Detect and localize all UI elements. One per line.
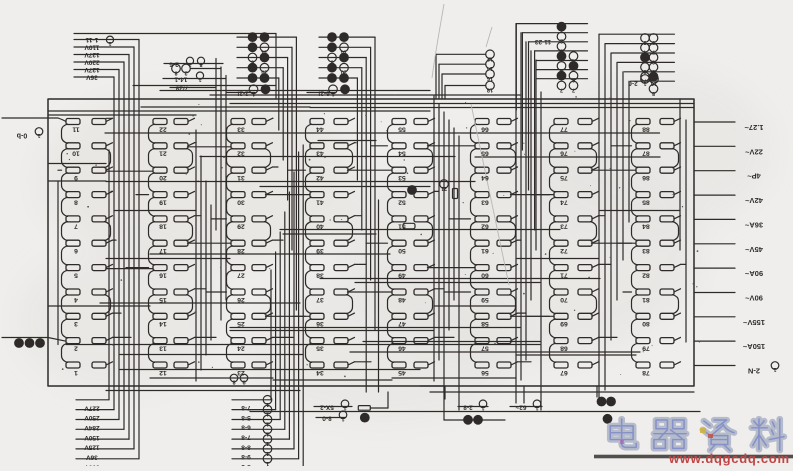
svg-text:9: 9 bbox=[242, 379, 245, 385]
svg-text:61: 61 bbox=[481, 247, 489, 254]
svg-text:6-8: 6-8 bbox=[241, 424, 251, 431]
svg-text:1: 1 bbox=[535, 404, 538, 410]
svg-text:84: 84 bbox=[642, 223, 650, 230]
svg-text:46: 46 bbox=[398, 344, 406, 351]
svg-text:87: 87 bbox=[642, 150, 650, 157]
svg-text:0-b: 0-b bbox=[17, 132, 28, 139]
svg-text:150V: 150V bbox=[84, 434, 100, 441]
svg-text:66: 66 bbox=[481, 125, 489, 132]
svg-text:74: 74 bbox=[560, 198, 568, 205]
svg-text:1: 1 bbox=[74, 369, 78, 376]
svg-text:6: 6 bbox=[643, 68, 646, 74]
svg-text:5X-2: 5X-2 bbox=[320, 404, 334, 411]
svg-text:3: 3 bbox=[560, 47, 563, 53]
svg-text:284V: 284V bbox=[84, 424, 100, 431]
svg-text:8: 8 bbox=[232, 379, 235, 385]
svg-text:1: 1 bbox=[266, 401, 269, 407]
svg-text:2: 2 bbox=[74, 344, 78, 351]
svg-text:54: 54 bbox=[398, 150, 406, 157]
svg-text:44: 44 bbox=[316, 125, 324, 132]
svg-text:17: 17 bbox=[159, 247, 167, 254]
svg-text:55: 55 bbox=[398, 125, 406, 132]
svg-text:1: 1 bbox=[108, 40, 111, 46]
svg-text:125V: 125V bbox=[84, 444, 100, 451]
svg-text:14-1: 14-1 bbox=[174, 76, 187, 83]
svg-text:5: 5 bbox=[560, 67, 563, 73]
svg-text:1: 1 bbox=[198, 76, 201, 82]
svg-text:38: 38 bbox=[316, 271, 324, 278]
svg-text:8: 8 bbox=[652, 90, 655, 96]
svg-text:22V~: 22V~ bbox=[745, 147, 763, 156]
svg-text:220V: 220V bbox=[84, 59, 100, 66]
svg-text:34: 34 bbox=[316, 369, 324, 376]
svg-text:36V: 36V bbox=[86, 74, 98, 81]
svg-text:29: 29 bbox=[237, 223, 245, 230]
svg-text:48: 48 bbox=[398, 296, 406, 303]
svg-text:73: 73 bbox=[560, 223, 568, 230]
svg-text:42: 42 bbox=[316, 174, 324, 181]
svg-text:7: 7 bbox=[652, 49, 655, 55]
svg-text:11: 11 bbox=[72, 125, 79, 132]
svg-text:6: 6 bbox=[572, 77, 575, 83]
svg-text:1: 1 bbox=[343, 404, 346, 410]
svg-text:51: 51 bbox=[398, 223, 406, 230]
svg-text:7: 7 bbox=[560, 87, 563, 93]
svg-text:14: 14 bbox=[159, 320, 167, 327]
svg-text:10: 10 bbox=[651, 80, 657, 86]
svg-text:6-2!: 6-2! bbox=[318, 90, 330, 97]
svg-text:6: 6 bbox=[74, 247, 78, 254]
svg-text:20: 20 bbox=[261, 69, 267, 75]
svg-text:www.dqgcdq.com: www.dqgcdq.com bbox=[668, 451, 789, 466]
svg-text:27: 27 bbox=[237, 271, 245, 278]
svg-text:150A~: 150A~ bbox=[742, 342, 765, 351]
svg-text:3: 3 bbox=[643, 39, 646, 45]
svg-text:23: 23 bbox=[237, 369, 245, 376]
svg-text:31: 31 bbox=[237, 174, 245, 181]
svg-text:47: 47 bbox=[398, 320, 406, 327]
svg-text:36A~: 36A~ bbox=[744, 220, 763, 229]
svg-text:43: 43 bbox=[316, 150, 324, 157]
svg-text:155V~: 155V~ bbox=[742, 318, 765, 327]
svg-text:11-23: 11-23 bbox=[534, 38, 551, 45]
svg-text:12: 12 bbox=[159, 369, 167, 376]
svg-text:10: 10 bbox=[72, 150, 80, 157]
svg-text:1: 1 bbox=[252, 90, 255, 96]
svg-text:7-8: 7-8 bbox=[241, 434, 251, 441]
svg-text:2-6: 2-6 bbox=[169, 61, 179, 68]
svg-text:227V: 227V bbox=[84, 404, 100, 411]
svg-text:45: 45 bbox=[398, 369, 406, 376]
svg-text:1: 1 bbox=[341, 415, 344, 421]
svg-text:2-8: 2-8 bbox=[463, 404, 473, 411]
svg-text:1: 1 bbox=[773, 366, 776, 372]
svg-text:13: 13 bbox=[159, 344, 167, 351]
svg-text:65: 65 bbox=[481, 150, 489, 157]
svg-text:14: 14 bbox=[340, 48, 347, 54]
svg-text:21: 21 bbox=[159, 150, 167, 157]
svg-text:8: 8 bbox=[174, 70, 177, 76]
svg-text:16: 16 bbox=[487, 75, 493, 81]
svg-text:36V: 36V bbox=[86, 453, 98, 460]
svg-text:22: 22 bbox=[159, 125, 167, 132]
svg-text:39: 39 bbox=[316, 247, 324, 254]
svg-text:5: 5 bbox=[652, 68, 655, 74]
svg-text:12: 12 bbox=[487, 55, 493, 61]
svg-text:20: 20 bbox=[159, 174, 167, 181]
svg-text:24: 24 bbox=[237, 344, 245, 351]
svg-text:9-8: 9-8 bbox=[241, 453, 251, 460]
svg-text:26: 26 bbox=[237, 296, 245, 303]
svg-text:42V~: 42V~ bbox=[745, 196, 763, 205]
svg-text:71: 71 bbox=[560, 271, 568, 278]
svg-text:81: 81 bbox=[642, 296, 650, 303]
svg-text:14: 14 bbox=[261, 48, 268, 54]
svg-text:1: 1 bbox=[266, 460, 269, 466]
svg-text:110V: 110V bbox=[84, 44, 99, 51]
svg-text:1: 1 bbox=[266, 440, 269, 446]
svg-text:88: 88 bbox=[642, 125, 650, 132]
svg-text:1: 1 bbox=[266, 421, 269, 427]
svg-text:2-6: 2-6 bbox=[628, 80, 638, 87]
svg-text:36: 36 bbox=[316, 320, 324, 327]
svg-text:28: 28 bbox=[237, 247, 245, 254]
svg-text:90V~: 90V~ bbox=[745, 294, 763, 303]
svg-text:69: 69 bbox=[560, 320, 568, 327]
svg-text:18: 18 bbox=[487, 87, 493, 93]
svg-text:37: 37 bbox=[316, 296, 324, 303]
svg-text:77: 77 bbox=[560, 125, 568, 132]
svg-text:1: 1 bbox=[481, 404, 484, 410]
svg-text:1-11: 1-11 bbox=[85, 36, 98, 43]
svg-text:76: 76 bbox=[560, 150, 568, 157]
svg-text:1: 1 bbox=[266, 450, 269, 456]
svg-text:83: 83 bbox=[642, 247, 650, 254]
svg-text:62: 62 bbox=[481, 223, 489, 230]
svg-text:80: 80 bbox=[642, 320, 650, 327]
svg-text:90A~: 90A~ bbox=[744, 269, 763, 278]
svg-text:40: 40 bbox=[316, 223, 324, 230]
svg-text:4: 4 bbox=[74, 296, 78, 303]
svg-text:1: 1 bbox=[266, 430, 269, 436]
svg-text:8: 8 bbox=[652, 39, 655, 45]
svg-text:79: 79 bbox=[642, 344, 650, 351]
svg-text:1: 1 bbox=[188, 61, 191, 67]
svg-text:70: 70 bbox=[560, 296, 568, 303]
svg-text:5: 5 bbox=[74, 271, 78, 278]
svg-text:8: 8 bbox=[74, 198, 78, 205]
svg-text:21: 21 bbox=[441, 185, 447, 191]
svg-text:7: 7 bbox=[572, 87, 575, 93]
svg-text:1: 1 bbox=[643, 80, 646, 86]
svg-text:52: 52 bbox=[398, 198, 406, 205]
svg-text:57: 57 bbox=[481, 344, 489, 351]
svg-text:9: 9 bbox=[74, 174, 78, 181]
svg-text:2-2!: 2-2! bbox=[237, 90, 249, 97]
svg-text:68: 68 bbox=[560, 344, 568, 351]
svg-text:62~: 62~ bbox=[515, 404, 526, 411]
svg-text:32: 32 bbox=[237, 150, 245, 157]
svg-text:1: 1 bbox=[331, 90, 334, 96]
svg-text:8-8: 8-8 bbox=[241, 443, 251, 450]
svg-text:2: 2 bbox=[184, 70, 187, 76]
svg-text:58: 58 bbox=[481, 320, 489, 327]
svg-text:8: 8 bbox=[199, 61, 202, 67]
svg-text:2-N: 2-N bbox=[748, 367, 760, 376]
svg-text:8-0: 8-0 bbox=[322, 415, 332, 422]
svg-text:63: 63 bbox=[481, 198, 489, 205]
svg-text:20: 20 bbox=[341, 69, 347, 75]
svg-text:6: 6 bbox=[652, 58, 655, 64]
svg-text:56: 56 bbox=[481, 369, 489, 376]
svg-text:7/28: 7/28 bbox=[175, 85, 188, 92]
svg-text:6: 6 bbox=[330, 59, 333, 65]
svg-text:6: 6 bbox=[251, 59, 254, 65]
svg-text:49: 49 bbox=[398, 271, 406, 278]
svg-text:86: 86 bbox=[642, 174, 650, 181]
svg-text:82: 82 bbox=[642, 271, 650, 278]
svg-text:3: 3 bbox=[74, 320, 78, 327]
svg-text:19: 19 bbox=[159, 198, 167, 205]
svg-text:50: 50 bbox=[398, 247, 406, 254]
svg-text:60: 60 bbox=[481, 271, 489, 278]
svg-text:250V: 250V bbox=[84, 414, 100, 421]
svg-text:64: 64 bbox=[481, 174, 489, 181]
svg-text:33: 33 bbox=[237, 125, 245, 132]
svg-text:7: 7 bbox=[74, 223, 78, 230]
svg-text:127V: 127V bbox=[84, 51, 100, 58]
svg-text:18: 18 bbox=[159, 223, 167, 230]
svg-text:53: 53 bbox=[398, 174, 406, 181]
svg-text:78: 78 bbox=[642, 369, 650, 376]
svg-text:59: 59 bbox=[481, 296, 489, 303]
svg-text:85: 85 bbox=[642, 198, 650, 205]
svg-text:30: 30 bbox=[237, 198, 245, 205]
svg-text:41: 41 bbox=[316, 198, 324, 205]
svg-text:1: 1 bbox=[37, 132, 40, 138]
svg-text:72: 72 bbox=[560, 247, 568, 254]
svg-text:35: 35 bbox=[316, 344, 324, 351]
svg-text:45V~: 45V~ bbox=[745, 245, 763, 254]
svg-text:127V: 127V bbox=[84, 66, 100, 73]
svg-text:5-8: 5-8 bbox=[241, 414, 251, 421]
svg-text:7-8: 7-8 bbox=[241, 404, 251, 411]
svg-text:67: 67 bbox=[560, 369, 568, 376]
svg-text:16: 16 bbox=[159, 271, 167, 278]
svg-text:1: 1 bbox=[266, 411, 269, 417]
svg-text:15: 15 bbox=[159, 296, 167, 303]
svg-text:2: 2 bbox=[560, 38, 563, 44]
svg-text:25: 25 bbox=[237, 320, 245, 327]
svg-text:75: 75 bbox=[560, 174, 568, 181]
svg-text:4P~: 4P~ bbox=[747, 172, 761, 181]
svg-text:1.27~: 1.27~ bbox=[744, 123, 764, 132]
svg-text:14: 14 bbox=[486, 65, 493, 71]
